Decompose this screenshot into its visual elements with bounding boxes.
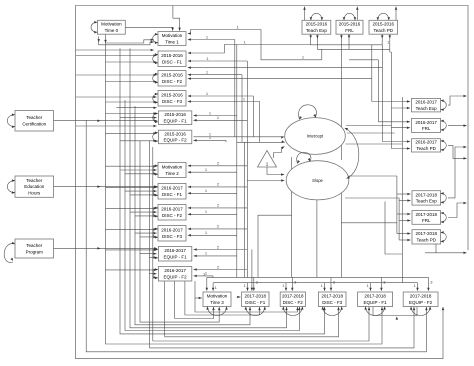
svg-text:DISC - F2: DISC - F2 [283, 300, 303, 305]
wire col2 drop 5 [185, 281, 261, 315]
label 3 DISC3F3 [333, 280, 336, 285]
svg-text:2017-2018: 2017-2018 [416, 212, 438, 217]
box 2016-2017 DISC - F2 [158, 205, 186, 221]
wire Slope out b [345, 197, 399, 199]
wire D1F3 loading b [188, 100, 260, 103]
wire feed col2 18 [153, 276, 157, 279]
svg-text:1: 1 [205, 209, 208, 214]
box 2016-2017 EQUIP - F1 [158, 247, 191, 262]
label 1 E1F1b [217, 115, 220, 120]
wire EQUIP3 bottom link [373, 307, 417, 316]
wire feed col2 17 [150, 272, 157, 275]
box 2017-2018 FRL [412, 211, 441, 225]
self-loop 2015-2016 EQUIP - F1 [153, 112, 158, 123]
box 2016-2017 FRL [412, 118, 441, 132]
label 3 EQUIP3F1 [383, 280, 386, 285]
svg-text:Motivation: Motivation [207, 294, 228, 299]
svg-text:Slope: Slope [312, 178, 323, 183]
svg-text:2016-2017: 2016-2017 [161, 186, 183, 191]
svg-text:Teach Exp: Teach Exp [416, 199, 438, 204]
wire PD3 to outer right vertical [425, 252, 467, 255]
self-loop 2016-2017 Teach Exp [441, 99, 447, 111]
svg-text:3: 3 [294, 280, 297, 285]
svg-text:Teacher: Teacher [26, 243, 43, 248]
wire M2 int loading [188, 171, 237, 174]
self-loop 2016-2017 FRL [441, 120, 447, 131]
box 2016-2017 DISC - F3 [158, 226, 186, 242]
box 2015-2016 Teach Exp [302, 20, 331, 34]
self-loop Motivation Time 3 [206, 307, 228, 316]
wire Teach Exp stub2 [316, 34, 319, 38]
wire rail x399 [398, 198, 400, 240]
svg-text:Teach Exp: Teach Exp [306, 28, 328, 33]
box Motivation Time 3 [203, 292, 231, 307]
box 2015-2016 DISC - F2 [158, 71, 186, 87]
self-loop 2015-2016 DISC - F3 [153, 93, 158, 104]
wire EQUIP1F2 to Intercept H1 [194, 136, 285, 139]
label 1 M1 [206, 34, 209, 39]
wire Slope out a [341, 181, 346, 183]
box Teacher Certification [15, 111, 54, 132]
svg-text:2015-2016: 2015-2016 [161, 93, 183, 98]
svg-text:Time 1: Time 1 [165, 39, 179, 44]
wire E2F1 slope loading [194, 248, 248, 251]
wire E2F2 slope loading [194, 268, 248, 271]
self-loop 2017-2018 DISC - F2 [282, 307, 304, 316]
label 1 D1F1 [206, 56, 209, 61]
wire col2 drop 2 [152, 147, 154, 341]
wire PD3 bottom jog [433, 244, 436, 253]
svg-text:1: 1 [243, 96, 246, 101]
wire Exp to DISC1F3 long [188, 77, 372, 80]
wire U6 [130, 48, 288, 327]
self-loop 2017-2018 DISC - F1 [245, 307, 266, 316]
wire rail x391 [390, 52, 392, 149]
svg-text:2017-2018: 2017-2018 [282, 294, 304, 299]
box 2017-2018 EQUIP - F2 [403, 292, 438, 307]
svg-text:Hours: Hours [28, 191, 41, 196]
wire outer loop bottom [76, 307, 445, 359]
wire into PD2 a [382, 140, 410, 143]
self-loop 2015-2016 Teach PD [377, 13, 391, 20]
svg-text:Certification: Certification [22, 122, 46, 127]
box 2017-2018 EQUIP - F1 [358, 292, 393, 307]
svg-text:1: 1 [205, 230, 208, 235]
wire into PD2 b [391, 147, 410, 150]
wire D2F2 int loading [188, 213, 237, 216]
wire FRL stub1 [340, 34, 343, 38]
wire Intercept out c [346, 143, 403, 145]
covariance Intercept-Slope [344, 127, 359, 180]
wire feed col2 1 [106, 165, 157, 168]
wire Exp2 right stub [448, 95, 467, 105]
wire feed col2 2 [120, 169, 157, 172]
wire rail x382 down [381, 45, 383, 142]
self-loop 2016-2017 EQUIP - F1 [153, 248, 158, 259]
wire drop x98 arrow [97, 37, 100, 43]
wire FRL stub1 drop [340, 39, 342, 45]
box 2015-2016 Teach PD [369, 20, 398, 34]
svg-text:1: 1 [215, 285, 218, 290]
box 2016-2017 EQUIP - F2 [158, 267, 191, 282]
box Motivation Time 1 [158, 32, 186, 46]
wire rail x378 down [377, 60, 379, 122]
svg-text:2: 2 [217, 161, 220, 166]
wire triangle to Slope [267, 167, 284, 176]
wire rail x396 [396, 176, 398, 234]
svg-text:1: 1 [282, 283, 285, 288]
wire FRL stub2 drop [348, 39, 350, 50]
wire EQUIP1F2 loading b [194, 139, 227, 142]
svg-text:3: 3 [333, 280, 336, 285]
wire drop into DISC3F1 left [246, 283, 249, 291]
wire triangle drop x291 [291, 157, 293, 277]
wire drop into DISC3F2 left [285, 283, 288, 291]
svg-text:1: 1 [205, 251, 208, 256]
wire into FRL3 b [399, 219, 410, 222]
svg-text:Teach PD: Teach PD [374, 28, 394, 33]
svg-text:1: 1 [217, 115, 220, 120]
label 1 y59 [302, 55, 305, 60]
self-loop 2016-2017 DISC - F3 [153, 228, 158, 239]
wire bottom bus1 [207, 276, 429, 278]
svg-text:Motivation: Motivation [101, 22, 122, 27]
wire rail x385 bracket [385, 202, 402, 255]
svg-text:EQUIP - F1: EQUIP - F1 [164, 119, 188, 124]
wire rail x226 [225, 140, 227, 142]
wire Teacher Program out [54, 247, 158, 250]
svg-text:1: 1 [321, 283, 324, 288]
svg-text:EQUIP - F1: EQUIP - F1 [164, 255, 188, 260]
svg-text:2015-2016: 2015-2016 [373, 22, 395, 27]
self-loop 2017-2018 EQUIP - F1 [364, 307, 386, 316]
wire slope long y222 [341, 222, 397, 224]
wire feed col2 5 [125, 190, 157, 193]
wire rail x378 top jog [349, 59, 378, 61]
svg-text:Program: Program [26, 249, 44, 254]
box 2015-2016 DISC - F3 [158, 91, 186, 107]
wire rail x234 down [234, 40, 236, 137]
wire Exp3 right stub [448, 146, 467, 198]
svg-text:2015-2016: 2015-2016 [161, 53, 183, 58]
wire collector y44.8 [311, 39, 383, 45]
svg-text:DISC - F1: DISC - F1 [162, 192, 182, 197]
wire PD to DISC1F2 long [188, 66, 383, 69]
svg-text:Teacher: Teacher [26, 115, 43, 120]
wire drop into EQUIP3F1 right [380, 277, 383, 290]
wire mid U b [153, 307, 370, 341]
wire PD stub1 drop [381, 39, 383, 45]
wire feed col2 7 [106, 207, 157, 210]
wire bottom bus2 [213, 282, 417, 284]
wire M1 loading [188, 38, 235, 41]
svg-text:DISC - F1: DISC - F1 [245, 300, 265, 305]
wire rail x253 down [253, 96, 255, 137]
self-loop 2017-2018 DISC - F3 [321, 307, 343, 316]
label 1 E1F2a [209, 132, 212, 137]
svg-text:2016-2017: 2016-2017 [415, 120, 437, 125]
svg-text:DISC - F3: DISC - F3 [162, 99, 182, 104]
wire EQUIP1F1 loading b [194, 119, 248, 122]
self-loop 2015-2016 Teach Exp [310, 13, 324, 20]
wire PD2 right stub [448, 145, 467, 159]
junction arrow prog [97, 247, 100, 250]
wire U8 [140, 141, 220, 322]
wire feed col1 1 [76, 54, 157, 57]
label 1 M1 cov [237, 25, 240, 30]
label 1 D2F1 [205, 188, 208, 193]
wire feed col2 10 [106, 228, 157, 231]
svg-text:1: 1 [302, 55, 305, 60]
wire D1F2 loading [188, 73, 242, 76]
wire FRL to Motivation1 [188, 30, 322, 60]
svg-text:2017-2018: 2017-2018 [321, 294, 343, 299]
wire Intercept out b [347, 132, 395, 134]
svg-text:DISC - F1: DISC - F1 [162, 60, 182, 65]
svg-text:1: 1 [414, 283, 417, 288]
self-loop Slope [296, 152, 311, 164]
wire U7 [135, 106, 251, 325]
svg-text:3: 3 [383, 280, 386, 285]
box 2017-2018 Teach Exp [412, 191, 441, 205]
svg-text:2015-2016: 2015-2016 [161, 73, 183, 78]
label 2 D2F1 [217, 182, 220, 187]
wire into Exp3 b [399, 199, 410, 202]
self-loop 2017-2018 EQUIP - F2 [410, 307, 432, 316]
wire rail x258 lower [258, 215, 292, 277]
wire into PD3 b [399, 239, 410, 242]
wire feed col1 2 [106, 61, 157, 64]
wire feed col2 13 [106, 249, 157, 252]
wire outer loop left-top-right [76, 6, 469, 359]
box 2017-2018 DISC - F3 [318, 292, 346, 307]
label 1 DISC3F3 [321, 283, 324, 288]
self-loop 2016-2017 EQUIP - F2 [153, 268, 158, 279]
svg-text:2016-2017: 2016-2017 [415, 140, 437, 145]
label 1 D1F1 cov [243, 39, 246, 44]
wire Teach PD stub1 [381, 34, 384, 38]
self-loop 2017-2018 Teach Exp [441, 192, 447, 204]
wire Teacher Certification out [54, 119, 158, 122]
wire feed col2 16 [106, 269, 157, 272]
svg-text:1: 1 [205, 167, 208, 172]
wire Teacher Education out [54, 185, 158, 188]
wire into DISC3F1 left side [237, 296, 241, 299]
label 1 EQUIP3F1 [367, 283, 370, 288]
svg-text:1: 1 [244, 283, 247, 288]
wire top line drop to Motivation1 [173, 6, 181, 31]
label 1 collector [387, 40, 390, 45]
label 1 D2F2 [205, 209, 208, 214]
svg-text:1: 1 [206, 70, 209, 75]
wire Motivation0 bottom drop [104, 34, 107, 43]
wire into Exp2 a [372, 100, 410, 103]
wire drop into Motivation3 left [206, 277, 209, 290]
latent Slope [286, 161, 349, 200]
wire rail x251 down to DISC3F1 [251, 250, 254, 291]
svg-text:FRL: FRL [345, 28, 354, 33]
svg-text:3: 3 [256, 280, 259, 285]
wire D2F3 int loading [188, 234, 237, 237]
svg-text:1: 1 [205, 188, 208, 193]
wire FRL stub2 [348, 34, 351, 38]
box 2017-2018 Teach PD [412, 230, 441, 244]
label 3 EQUIP3F2 [430, 280, 433, 285]
wire Teach Exp up-arrow [303, 7, 306, 21]
wire collector y49.3 [317, 39, 389, 50]
junction arrow edu [97, 185, 100, 188]
wire rail x371 down [371, 45, 373, 102]
svg-text:FRL: FRL [422, 126, 431, 131]
self-loop Teacher Certification [7, 113, 15, 128]
wire rail x236 down [236, 45, 238, 278]
label 1 E1F2b [209, 135, 212, 140]
label 3 DISC3F2 [294, 280, 297, 285]
svg-text:Teacher: Teacher [26, 178, 43, 183]
wire into PD3 a [397, 232, 411, 235]
svg-text:Education: Education [24, 184, 45, 189]
label 2 D2F2 [217, 203, 220, 208]
label 3 DISC3F1 [256, 280, 259, 285]
svg-text:1: 1 [206, 91, 209, 96]
svg-text:2016-2017: 2016-2017 [164, 268, 186, 273]
wire top-left jog a [106, 39, 154, 43]
svg-text:DISC - F2: DISC - F2 [162, 213, 182, 218]
wire D2F1 slope loading [188, 186, 248, 189]
wire feed col2 8 [130, 211, 157, 214]
wire rail x244 down [244, 142, 246, 277]
wire U3 [106, 43, 384, 344]
label 1 M2 [205, 167, 208, 172]
wire mid U d [175, 307, 215, 319]
self-loop 2016-2017 DISC - F2 [153, 207, 158, 218]
wire drop into EQUIP3F1 left [369, 283, 372, 291]
wire into Exp2 b [391, 107, 410, 110]
label 2 M2 [217, 161, 220, 166]
wire col2 drop 6 [195, 281, 299, 312]
wire feed col2 14 [140, 252, 157, 255]
wire Motivation0 to Motivation1 [125, 27, 174, 30]
svg-text:EQUIP - F2: EQUIP - F2 [164, 138, 188, 143]
label 1 E2F1 [205, 251, 208, 256]
self-loop 2015-2016 DISC - F1 [153, 53, 158, 64]
wire D2F2 slope loading [188, 207, 248, 210]
wire feed col1 8 [106, 112, 157, 115]
wire feed col1 5 [76, 96, 157, 99]
svg-text:3: 3 [430, 280, 433, 285]
svg-text:DISC - F2: DISC - F2 [162, 79, 182, 84]
wire E2F2 to bus2 [212, 276, 214, 278]
wire col2 drop 4 [174, 281, 176, 319]
svg-text:2015-2016: 2015-2016 [306, 22, 328, 27]
svg-text:EQUIP - F2: EQUIP - F2 [164, 275, 188, 280]
wire Teach PD stub2 [389, 34, 392, 38]
wire drop into EQUIP3F2 left [416, 283, 419, 291]
wire top-left long [76, 49, 154, 52]
wire top-left jog b [99, 41, 154, 45]
svg-text:2: 2 [217, 203, 220, 208]
svg-text:1: 1 [237, 25, 240, 30]
wire slope bottom drop [316, 200, 318, 277]
wire rail x341 to mid [340, 45, 342, 160]
box 2016-2017 Teach PD [412, 139, 441, 152]
wire feed col1 11 [106, 132, 157, 135]
svg-text:2016-2017: 2016-2017 [415, 100, 437, 105]
svg-text:DISC - F3: DISC - F3 [162, 234, 182, 239]
label 1 DISC3F2 [282, 283, 285, 288]
label 2 E2F2 [217, 264, 220, 269]
wire D1F1 loading b [188, 60, 248, 63]
svg-text:Teach PD: Teach PD [417, 238, 437, 243]
wire rail x321 drop [321, 49, 323, 60]
svg-text:Intercept: Intercept [307, 134, 324, 139]
wire drop into DISC3F2 right [291, 277, 294, 290]
wire col2 drop 1 [149, 140, 151, 348]
svg-text:Motivation: Motivation [162, 164, 183, 169]
wire drop into EQUIP3F2 right [427, 277, 430, 290]
wire Intercept out a [346, 125, 391, 127]
wire FRL up-arrow [356, 7, 359, 21]
wire into FRL2 a [378, 121, 410, 124]
wire slope out c [347, 175, 397, 177]
svg-text:EQUIP - F1: EQUIP - F1 [364, 300, 388, 305]
box 2015-2016 EQUIP - F1 [158, 111, 191, 125]
label 1 EQUIP3F2 [414, 283, 417, 288]
svg-text:2017-2018: 2017-2018 [245, 294, 267, 299]
wire feed col1 10 [76, 125, 157, 128]
label 2 D2F3 [217, 224, 220, 229]
svg-text:Teach Exp: Teach Exp [416, 106, 438, 111]
svg-text:2016-2017: 2016-2017 [161, 228, 183, 233]
box Teacher Program [15, 239, 54, 258]
svg-text:2015-2016: 2015-2016 [164, 112, 186, 117]
wire FRL2 right stub [448, 124, 467, 127]
wire EQUIP1F1 loading a [194, 114, 237, 117]
wire rail x242 down [241, 75, 243, 143]
wire feed col2 11 [135, 232, 157, 235]
wire Teach PD up-arrow [395, 7, 398, 21]
label 1 D2F3 [205, 230, 208, 235]
wire rail x341 lower [340, 182, 342, 277]
svg-text:1: 1 [367, 283, 370, 288]
wire Teach Exp stub1 [309, 34, 312, 38]
svg-text:2017-2018: 2017-2018 [416, 231, 438, 236]
wire feed col2 9 [135, 215, 157, 218]
wire drop into DISC3F3 right [330, 277, 333, 290]
wire U4 [120, 48, 326, 334]
wire drop into DISC3F3 left [323, 283, 326, 291]
wire M2 slope loading [188, 165, 248, 168]
self-loop 2015-2016 FRL [343, 13, 357, 20]
self-loop Intercept [298, 105, 316, 120]
label 1 DISC3F1 [244, 283, 247, 288]
label 2 E2F1 [217, 244, 220, 249]
wire E2F1 int loading [194, 255, 237, 258]
wire FRL3 right stub [448, 202, 467, 218]
box 2015-2016 FRL [336, 20, 363, 34]
box 2017-2018 DISC - F2 [280, 292, 305, 307]
svg-text:2015-2016: 2015-2016 [164, 131, 186, 136]
svg-text:2017-2018: 2017-2018 [416, 192, 438, 197]
svg-text:1: 1 [206, 34, 209, 39]
box Teacher Education Hours [15, 176, 54, 197]
svg-text:1: 1 [206, 56, 209, 61]
svg-text:1: 1 [209, 110, 212, 115]
svg-text:Time 2: Time 2 [165, 171, 179, 176]
self-loop 2015-2016 DISC - F2 [153, 73, 158, 84]
self-loop 2015-2016 EQUIP - F2 [153, 131, 158, 142]
svg-text:2: 2 [217, 224, 220, 229]
